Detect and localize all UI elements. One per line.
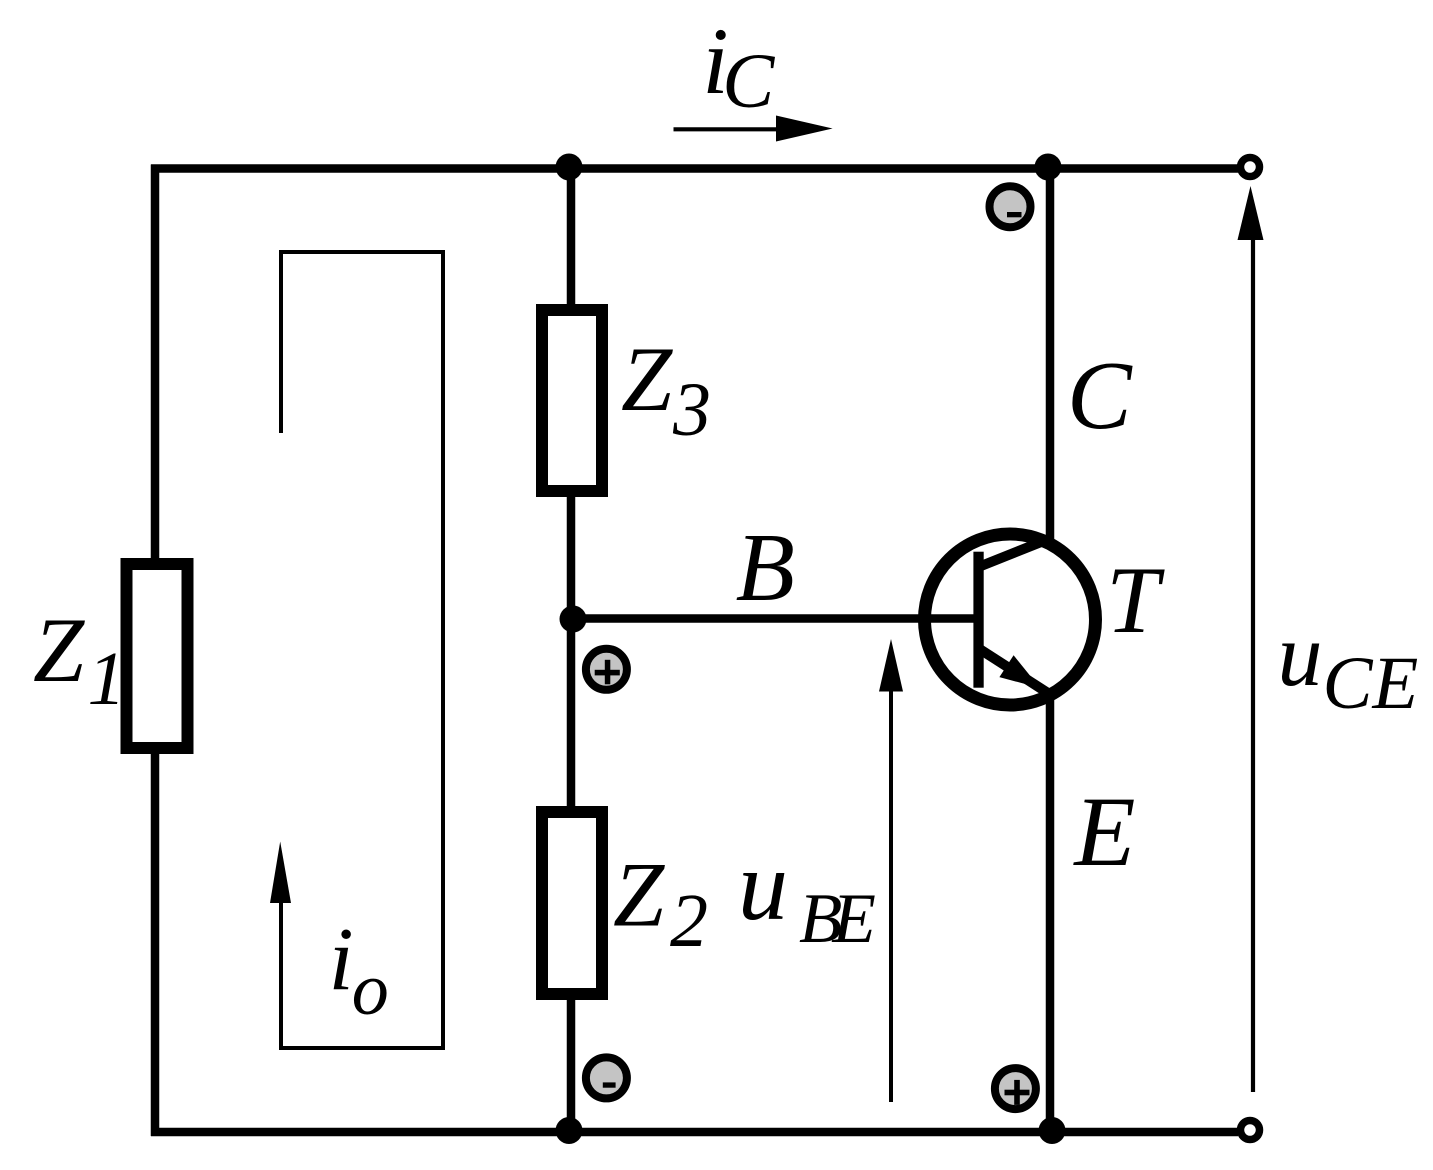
svg-text:C: C	[1067, 342, 1133, 449]
svg-text:Z: Z	[621, 328, 673, 430]
svg-text:Z: Z	[33, 599, 85, 701]
svg-text:T: T	[1106, 547, 1165, 653]
svg-text:Z: Z	[613, 844, 665, 946]
svg-text:E: E	[832, 880, 876, 958]
svg-text:E: E	[1072, 776, 1135, 887]
svg-text:CE: CE	[1323, 642, 1419, 725]
svg-text:1: 1	[88, 637, 126, 721]
svg-text:C: C	[722, 37, 775, 124]
svg-text:u: u	[1278, 606, 1323, 705]
svg-text:2: 2	[670, 879, 708, 963]
svg-text:3: 3	[672, 368, 711, 452]
svg-text:u: u	[738, 830, 788, 941]
svg-text:o: o	[352, 949, 389, 1031]
svg-text:B: B	[736, 514, 795, 621]
svg-text:i: i	[329, 910, 354, 1009]
